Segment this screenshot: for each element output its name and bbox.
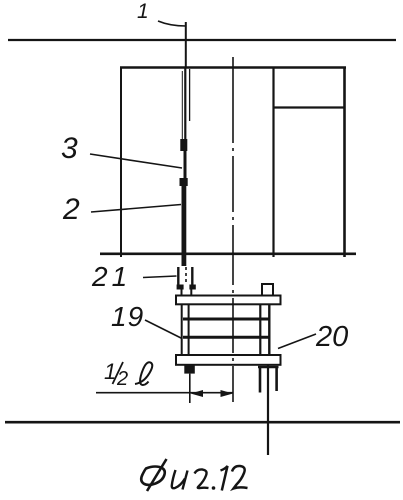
left rail inner line [188, 305, 190, 356]
rod parallel line left [181, 71, 183, 148]
fork prong left [259, 367, 262, 393]
left rail outer line [181, 305, 183, 356]
fork root bar [258, 366, 279, 368]
caption period [212, 486, 216, 490]
caption letter i (Cyrillic i) [172, 470, 188, 490]
hanger hook right [191, 267, 193, 285]
rod collar lower [180, 178, 188, 186]
right rail inner line [259, 305, 261, 356]
leader line for label 19 [145, 320, 182, 339]
floor line [5, 421, 400, 424]
left foot block [184, 365, 195, 374]
label half-l script ell [135, 362, 152, 385]
svg-text:3: 3 [61, 132, 78, 165]
dimension arrowhead left [191, 390, 204, 397]
svg-text:21: 21 [91, 261, 131, 292]
svg-text:2: 2 [116, 368, 128, 390]
caption letter F (Cyrillic Ef) [141, 459, 166, 491]
vertical rod above box [185, 22, 187, 67]
rod segment between collars [184, 151, 187, 178]
centre dash-dot line [232, 57, 234, 402]
trolley top plate [176, 296, 281, 305]
hanger stem left to plate [181, 290, 183, 297]
trolley bottom plate [176, 355, 281, 365]
ceiling line [8, 39, 396, 41]
dimension arrowhead right [221, 390, 234, 397]
hanger foot left [177, 285, 184, 290]
rod collar upper [180, 139, 187, 151]
leader line for label 3 [90, 154, 182, 168]
leader line for label 21 [143, 276, 177, 278]
right post tab above top plate [262, 284, 273, 296]
box internal vertical divider [272, 67, 274, 257]
leader line for label 1 [158, 21, 186, 26]
caption letter g (Cyrillic ghe) [195, 469, 209, 488]
hanger foot right [189, 285, 195, 290]
rod parallel line right [189, 69, 191, 121]
box top edge [120, 66, 346, 68]
box left edge [120, 67, 122, 257]
leader line for label 20 [278, 334, 316, 349]
svg-text:19: 19 [111, 301, 144, 332]
fork stem vertical [267, 365, 269, 455]
svg-text:20: 20 [315, 321, 348, 353]
dimension line [96, 392, 233, 394]
fork prong right [275, 367, 278, 391]
rung upper [183, 318, 269, 321]
svg-text:2: 2 [62, 193, 80, 226]
box right edge [343, 67, 346, 257]
caption digit 1 [221, 466, 228, 491]
hanger hook left [177, 267, 179, 285]
hanger stem right to plate [190, 290, 192, 297]
box bottom line [100, 253, 356, 256]
leader line for label 2 [91, 205, 181, 213]
box internal horizontal line [273, 106, 345, 108]
right rail outer line [268, 305, 270, 356]
caption digit 2 [232, 466, 248, 489]
svg-text:1: 1 [137, 0, 149, 23]
label half-l slash [113, 362, 124, 384]
rod main line inside box [184, 67, 186, 140]
rod thick bar lower part [182, 186, 187, 266]
hanger centre dashed remnant [185, 267, 187, 284]
rung lower [183, 336, 269, 339]
dimension extension line left [189, 374, 191, 403]
